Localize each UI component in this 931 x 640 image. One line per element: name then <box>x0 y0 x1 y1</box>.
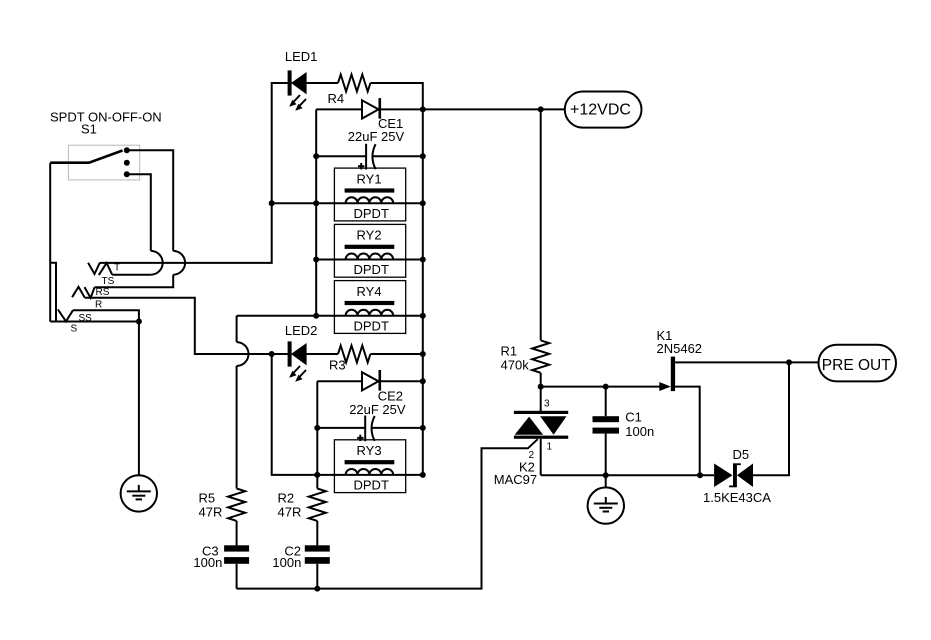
svg-text:RY3: RY3 <box>357 443 382 458</box>
jack body line <box>50 263 56 322</box>
jack ring contact R <box>72 287 102 311</box>
wire K2 bottom rail <box>541 472 714 478</box>
wire R5 to C3 <box>236 521 238 546</box>
wire RY1 coil link <box>272 202 317 204</box>
svg-text:R2: R2 <box>278 490 295 505</box>
svg-text:RY2: RY2 <box>357 228 382 243</box>
svg-text:22uF 25V: 22uF 25V <box>349 402 406 417</box>
wire +12VDC line <box>316 106 565 112</box>
capacitor CE1 <box>348 116 405 170</box>
resistor R2 <box>278 489 326 521</box>
switch S1 lever and contacts <box>50 147 130 177</box>
resistor R5 <box>199 489 246 521</box>
wire RY4 coil to hop column <box>237 315 317 317</box>
wire C2 to bottom rail <box>316 564 318 589</box>
diode D2 <box>362 370 381 391</box>
svg-text:S: S <box>71 324 78 335</box>
svg-text:R5: R5 <box>199 490 216 505</box>
wire R3 to right bus <box>370 353 422 355</box>
wire switch common down to S <box>49 163 51 322</box>
wire hop column down to R5 (hop over R line) <box>237 316 249 489</box>
wire C3 to bottom rail <box>236 564 238 589</box>
switch S1 label <box>50 110 162 137</box>
svg-text:DPDT: DPDT <box>354 478 389 493</box>
svg-text:47R: 47R <box>199 505 223 520</box>
diode D1 <box>362 98 381 119</box>
left bus vertical lower <box>314 381 320 488</box>
svg-text:1.5KE43CA: 1.5KE43CA <box>703 490 771 505</box>
svg-text:100n: 100n <box>625 424 654 439</box>
relay RY2 <box>316 224 423 277</box>
wire switch top contact to RS (with hop over T) <box>95 150 186 287</box>
resistor R4 <box>328 75 371 107</box>
capacitor C3 <box>193 544 249 570</box>
LED2 <box>285 323 318 382</box>
wire R2 to C2 <box>316 521 318 546</box>
right bus vertical <box>420 106 426 478</box>
svg-text:1: 1 <box>547 442 553 453</box>
relay RY3 <box>317 440 423 493</box>
svg-text:S1: S1 <box>81 122 97 137</box>
jack tip contact T <box>88 263 120 275</box>
svg-text:T: T <box>114 263 120 274</box>
triac K2 MAC97 <box>494 387 568 487</box>
output flag PRE OUT <box>819 345 897 382</box>
wire CE1 row <box>313 153 423 159</box>
ground symbol left <box>121 475 157 511</box>
svg-text:LED2: LED2 <box>285 323 318 338</box>
svg-text:100n: 100n <box>193 555 222 570</box>
svg-text:RY1: RY1 <box>357 171 382 186</box>
jack ring switch contact RS <box>85 287 110 298</box>
svg-text:D5: D5 <box>733 447 750 462</box>
svg-text:RY4: RY4 <box>357 284 382 299</box>
wire R line down and to LED2 junction <box>85 298 288 357</box>
svg-text:R3: R3 <box>329 358 346 373</box>
wire switch bottom contact to TS (with hop over T) <box>112 174 163 275</box>
wire R1 feed from +12VDC <box>540 109 542 340</box>
resistor R1 <box>501 340 550 372</box>
svg-text:DPDT: DPDT <box>354 206 389 221</box>
left bus vertical upper <box>313 109 319 318</box>
relay RY4 <box>316 281 423 334</box>
wire T line to LED1 <box>100 83 288 263</box>
wire R1 to gate node <box>540 373 542 387</box>
ground symbol right <box>588 475 624 524</box>
capacitor CE2 <box>349 388 406 441</box>
svg-text:PRE OUT: PRE OUT <box>822 357 891 374</box>
switch S1 body box <box>68 145 139 180</box>
svg-text:MAC97: MAC97 <box>494 472 537 487</box>
diode D5 1.5KE43CA <box>703 447 771 505</box>
svg-text:R4: R4 <box>328 91 345 106</box>
wire drain to PRE OUT <box>786 359 819 365</box>
wire SS to ground junction <box>73 310 139 324</box>
wire R4 to right bus <box>370 83 422 109</box>
supply flag +12VDC <box>565 92 642 128</box>
wire D2 row <box>317 380 423 382</box>
svg-text:DPDT: DPDT <box>354 262 389 277</box>
svg-text:R: R <box>95 299 102 310</box>
wire bottom rail to K2 gate <box>237 439 538 591</box>
wire LED1 to R4 <box>307 82 338 84</box>
wire LED2 junction down to RY3 coil <box>272 354 318 475</box>
svg-text:DPDT: DPDT <box>354 318 389 333</box>
svg-text:SPDT ON-OFF-ON: SPDT ON-OFF-ON <box>50 110 162 125</box>
transistor K1 2N5462 <box>657 328 790 475</box>
jack sleeve contact S <box>58 309 78 334</box>
jack tip switch contact TS <box>99 263 115 287</box>
svg-text:C1: C1 <box>625 410 642 425</box>
resistor R3 <box>329 346 370 373</box>
capacitor C1 <box>593 387 655 476</box>
wire gate line to K1 <box>538 384 660 390</box>
svg-text:47R: 47R <box>278 505 302 520</box>
svg-text:3: 3 <box>544 398 550 409</box>
wire LED2 to R3 <box>307 353 338 355</box>
wire PRE OUT node down to D5 <box>753 362 789 475</box>
svg-text:LED1: LED1 <box>285 49 318 64</box>
relay RY1 <box>316 168 423 221</box>
svg-text:+12VDC: +12VDC <box>570 102 631 119</box>
svg-text:TS: TS <box>102 276 115 287</box>
svg-text:RS: RS <box>96 287 110 298</box>
svg-text:2N5462: 2N5462 <box>657 341 703 356</box>
capacitor C2 <box>272 544 329 570</box>
svg-text:22uF 25V: 22uF 25V <box>348 129 405 144</box>
svg-text:470k: 470k <box>501 357 530 372</box>
wire CE2 row <box>317 427 423 429</box>
svg-text:100n: 100n <box>272 555 301 570</box>
LED1 <box>285 49 318 111</box>
wire S line and down to ground <box>50 319 142 476</box>
